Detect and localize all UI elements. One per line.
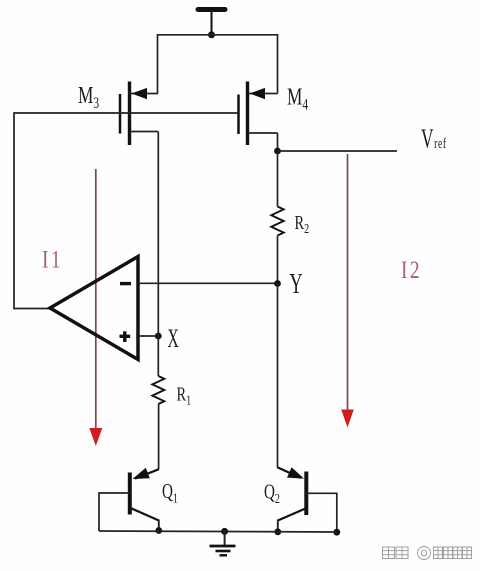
resistor R2 (271, 207, 283, 236)
junction dot Q2 collector (274, 528, 281, 535)
junction dot Q2 base corner (333, 529, 340, 536)
svg-text:I2: I2 (401, 256, 422, 284)
wire M3 drain through node X to R1 (157, 132, 159, 377)
svg-text:M3: M3 (78, 81, 99, 112)
junction dot Q1 collector (155, 527, 162, 534)
svg-text:R2: R2 (295, 211, 310, 237)
svg-text:M4: M4 (287, 83, 308, 114)
wire VDD rail to M3/M4 sources (158, 35, 278, 94)
wire Vref output (278, 150, 398, 152)
wire M4 drain to Vref node (277, 133, 279, 151)
current arrow I1 (89, 169, 102, 446)
svg-text:R1: R1 (177, 382, 192, 408)
wire gate net (M3/M4 gates to op-amp output) (14, 113, 239, 309)
wire noninverting input to node X (138, 335, 158, 337)
svg-text:X: X (168, 324, 180, 353)
wire R2 to node Y (277, 236, 279, 284)
resistor R1 (152, 376, 164, 404)
transistor Q2 (278, 467, 337, 532)
ground (210, 528, 236, 555)
transistor Q1 (99, 468, 159, 531)
junction dot Vref node (274, 148, 281, 155)
junction dot VDD rail (208, 31, 215, 38)
svg-text:Q2: Q2 (264, 480, 280, 506)
VDD supply (198, 10, 225, 36)
svg-text:Y: Y (290, 269, 303, 300)
wire Y to Q2 emitter (277, 284, 279, 469)
node X (155, 333, 162, 340)
transistor M4 (239, 82, 278, 146)
wire emitter ground bus (99, 531, 337, 532)
watermark (383, 547, 472, 560)
wire inverting input to node Y (138, 282, 278, 284)
transistor M3 (120, 82, 158, 146)
wire R1 to Q1 emitter (158, 404, 160, 470)
wire Vref node to R2 (277, 151, 279, 207)
svg-text:Q1: Q1 (162, 480, 178, 506)
svg-text:Vref: Vref (421, 124, 447, 154)
current arrow I2 (341, 154, 354, 428)
op-amp U1 (50, 257, 138, 360)
svg-text:I1: I1 (42, 245, 63, 273)
node Y (274, 280, 281, 287)
